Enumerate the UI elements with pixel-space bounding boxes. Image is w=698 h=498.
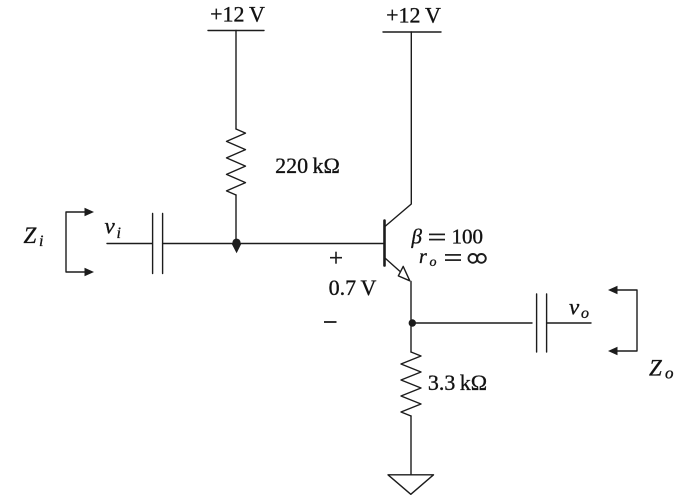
svg-text:i: i xyxy=(117,225,121,242)
svg-text:Z: Z xyxy=(24,223,37,248)
svg-text:o: o xyxy=(581,305,589,322)
svg-text:+12 V: +12 V xyxy=(210,2,265,27)
svg-text:+12 V: +12 V xyxy=(386,3,441,28)
svg-text:r: r xyxy=(419,246,427,268)
svg-text:Z: Z xyxy=(649,355,662,380)
svg-text:100: 100 xyxy=(452,225,484,249)
svg-text:v: v xyxy=(105,214,116,239)
svg-text:0.7 V: 0.7 V xyxy=(329,275,377,300)
svg-text:220 kΩ: 220 kΩ xyxy=(275,153,340,178)
svg-text:i: i xyxy=(39,233,43,250)
svg-text:3.3 kΩ: 3.3 kΩ xyxy=(428,370,487,395)
svg-text:v: v xyxy=(569,295,580,320)
svg-text:o: o xyxy=(665,364,674,383)
svg-text:o: o xyxy=(430,255,437,270)
svg-text:β: β xyxy=(411,225,423,249)
